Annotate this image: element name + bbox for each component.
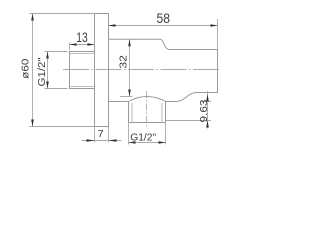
- svg-text:32: 32: [118, 55, 130, 69]
- svg-text:58: 58: [157, 11, 171, 26]
- svg-text:G1/2": G1/2": [36, 57, 48, 86]
- svg-text:13: 13: [76, 30, 88, 45]
- svg-text:9.63: 9.63: [198, 99, 210, 122]
- svg-text:7: 7: [98, 128, 104, 140]
- svg-text:ø60: ø60: [20, 59, 32, 79]
- svg-text:G1/2": G1/2": [130, 132, 156, 144]
